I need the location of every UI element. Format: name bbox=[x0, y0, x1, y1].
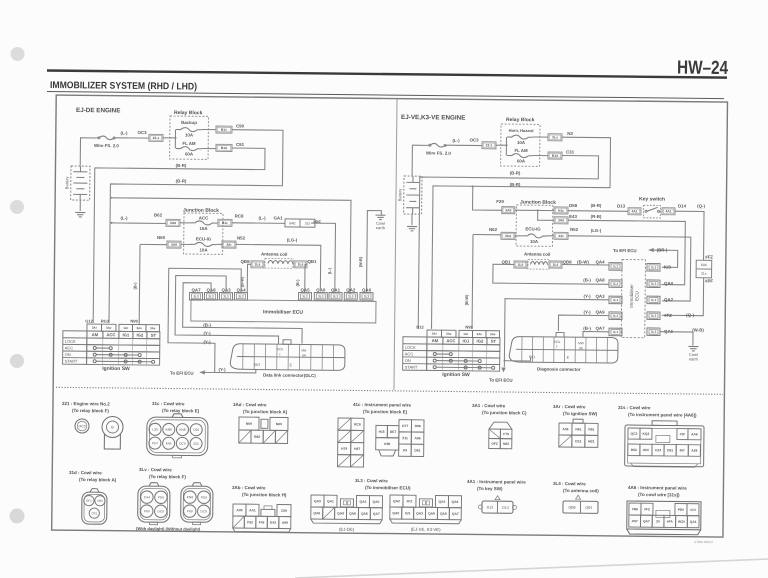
ECU pin QA7 connector 3L3 bbox=[189, 293, 202, 301]
svg-text:QA1: QA1 bbox=[331, 287, 341, 292]
junction block dashed box (right) bbox=[516, 205, 553, 246]
svg-text:QB1: QB1 bbox=[585, 506, 592, 510]
fuse FL AM 60A (right) bbox=[507, 154, 533, 158]
wire fuse to 3Ar bbox=[217, 243, 222, 245]
svg-text:22-1: 22-1 bbox=[486, 143, 493, 147]
wire N62 feed bbox=[473, 233, 501, 235]
svg-text:O31: O31 bbox=[91, 511, 97, 515]
svg-text:LOCK: LOCK bbox=[65, 339, 76, 344]
svg-text:(W-B): (W-B) bbox=[358, 256, 363, 267]
svg-text:4A6 : Instrument panel wire: 4A6 : Instrument panel wire bbox=[628, 485, 687, 491]
svg-text:(To immobiliser ECU): (To immobiliser ECU) bbox=[365, 485, 411, 490]
legend 221 connector B (keyhole) bbox=[102, 416, 123, 449]
svg-text:IG1: IG1 bbox=[122, 332, 129, 337]
svg-text:A05: A05 bbox=[236, 508, 242, 512]
svg-text:10A: 10A bbox=[517, 140, 526, 145]
svg-text:WZ#: WZ# bbox=[678, 520, 685, 524]
svg-text:QA1: QA1 bbox=[327, 499, 334, 503]
svg-text:OC3: OC3 bbox=[78, 424, 85, 428]
svg-text:QA0: QA0 bbox=[316, 287, 326, 292]
legend 3L3 connector EJ-DE bbox=[311, 495, 383, 532]
svg-text:#PF: #PF bbox=[705, 278, 713, 283]
svg-text:#DV: #DV bbox=[643, 448, 650, 452]
connector 22-1 (right) bbox=[482, 142, 496, 149]
svg-text:(With daylight) (Without dayli: (With daylight) (Without daylight) bbox=[136, 526, 201, 532]
wire Q- to #FZ pin bbox=[662, 277, 704, 315]
wire SIO branch right bbox=[504, 357, 531, 361]
svg-text:IG2: IG2 bbox=[477, 339, 484, 344]
svg-text:60A: 60A bbox=[517, 158, 526, 163]
svg-text:15A: 15A bbox=[199, 226, 208, 231]
svg-text:N99: N99 bbox=[130, 318, 138, 323]
svg-text:3Lv : Cowl wire: 3Lv : Cowl wire bbox=[139, 467, 172, 472]
wire B- row5 bbox=[583, 332, 609, 337]
ECU pin QA3 connector 3L3 bbox=[219, 293, 232, 301]
diagnosis connector bbox=[509, 332, 618, 363]
svg-text:#FA: #FA bbox=[667, 520, 674, 524]
wire N3 to ignition SW (B-R) right bbox=[432, 136, 611, 331]
svg-text:RG1: RG1 bbox=[101, 318, 110, 323]
svg-text:QA9: QA9 bbox=[337, 511, 344, 515]
svg-text:(B-R): (B-R) bbox=[510, 170, 521, 175]
ECU pin QA6 connector 3L3 bbox=[360, 293, 373, 301]
svg-text:(To antenna coil): (To antenna coil) bbox=[563, 488, 599, 493]
legend 4A6 connector bbox=[627, 501, 701, 535]
wire antenna return B- bbox=[493, 264, 609, 284]
svg-text:DC9: DC9 bbox=[158, 509, 165, 513]
svg-text:QA5: QA5 bbox=[361, 512, 368, 516]
svg-text:3L3: 3L3 bbox=[223, 295, 229, 299]
svg-text:Key switch: Key switch bbox=[639, 196, 665, 202]
header thick rule bbox=[47, 71, 727, 78]
svg-text:3L3: 3L3 bbox=[318, 294, 324, 298]
svg-text:QA3: QA3 bbox=[416, 511, 423, 515]
svg-text:C90: C90 bbox=[193, 428, 199, 432]
svg-text:QA4: QA4 bbox=[439, 500, 446, 504]
connector B1d / C31 bbox=[548, 152, 562, 159]
wire R-B to QA0 bbox=[567, 220, 685, 285]
svg-text:Antenna coil: Antenna coil bbox=[261, 252, 287, 257]
svg-text:3Ai: 3Ai bbox=[92, 326, 97, 330]
svg-text:(To junction block A): (To junction block A) bbox=[243, 409, 288, 414]
svg-text:earth: earth bbox=[689, 356, 698, 361]
svg-text:A7BB-0303J: A7BB-0303J bbox=[694, 540, 713, 544]
svg-text:PD6: PD6 bbox=[201, 495, 207, 499]
binder hole dot 3 bbox=[10, 354, 24, 368]
svg-text:3Lv: 3Lv bbox=[552, 135, 558, 139]
ECU right-ckt right pin IU3 bbox=[647, 263, 660, 271]
svg-text:F69: F69 bbox=[144, 509, 150, 513]
svg-text:Wire FS. 2.0: Wire FS. 2.0 bbox=[94, 143, 119, 148]
svg-text:N60: N60 bbox=[157, 235, 166, 240]
connector 3Lv / N3 bbox=[548, 134, 562, 141]
fuse FL AM 60A bbox=[176, 147, 202, 151]
wire QA3 (Y-) loop bbox=[175, 275, 279, 344]
wire LG- to QA2 bbox=[567, 236, 690, 301]
svg-text:3A5: 3A5 bbox=[505, 208, 511, 212]
svg-text:OF1: OF1 bbox=[86, 499, 92, 503]
svg-text:D77: D77 bbox=[402, 424, 408, 428]
wire Q- down part1 bbox=[675, 211, 705, 260]
svg-text:(B-): (B-) bbox=[583, 277, 591, 282]
svg-text:31s : Cowl wire: 31s : Cowl wire bbox=[618, 405, 651, 410]
svg-text:QA4: QA4 bbox=[360, 500, 367, 504]
connector H1c bbox=[554, 207, 568, 214]
svg-text:3L4 : Cowl wire: 3L4 : Cowl wire bbox=[553, 481, 586, 486]
wire battery negative to ground bbox=[79, 200, 81, 211]
svg-text:EJ-DE ENGINE: EJ-DE ENGINE bbox=[76, 107, 121, 114]
svg-text:QA9: QA9 bbox=[428, 512, 435, 516]
svg-text:F52: F52 bbox=[247, 520, 253, 524]
svg-text:QC3: QC3 bbox=[631, 432, 638, 436]
svg-text:3L4: 3L4 bbox=[518, 263, 524, 267]
wire fusible link to 22-1 bbox=[116, 137, 149, 139]
battery (left) bbox=[64, 166, 90, 200]
ECU pin QA5 connector 3L3 bbox=[298, 293, 311, 301]
svg-text:3Ar : Cowl wire: 3Ar : Cowl wire bbox=[553, 404, 586, 409]
svg-text:6AE: 6AE bbox=[289, 221, 296, 225]
svg-text:3L3: 3L3 bbox=[333, 294, 339, 298]
svg-text:Data link connector(DLC): Data link connector(DLC) bbox=[263, 373, 316, 379]
svg-text:221 : Engine wire No.2: 221 : Engine wire No.2 bbox=[62, 401, 110, 407]
svg-text:QA0: QA0 bbox=[392, 511, 399, 515]
svg-text:#FZ: #FZ bbox=[407, 499, 413, 503]
svg-text:T: T bbox=[556, 345, 558, 349]
ECU right-ckt right pin QA0 bbox=[647, 280, 660, 288]
connector 3A9 right bbox=[554, 217, 568, 224]
svg-text:MW: MW bbox=[578, 341, 584, 345]
svg-text:D14: D14 bbox=[502, 506, 509, 510]
ECU pin QA4 connector 3L3 bbox=[234, 293, 247, 301]
connector 4A1 right of key switch bbox=[662, 208, 675, 215]
svg-text:#N6: #N6 bbox=[632, 507, 638, 511]
svg-text:3Av: 3Av bbox=[150, 326, 156, 330]
connector B1c / C90 bbox=[216, 126, 232, 133]
wire battery top lead bbox=[80, 137, 97, 139]
wire down to ignition right N99 bbox=[471, 234, 474, 328]
svg-text:(To cowl wire [31s]): (To cowl wire [31s]) bbox=[638, 492, 680, 497]
svg-text:(Q-): (Q-) bbox=[686, 312, 694, 317]
svg-text:(L-): (L-) bbox=[258, 215, 266, 220]
svg-text:(: ( bbox=[279, 352, 281, 356]
svg-text:(L-): (L-) bbox=[120, 215, 128, 220]
fuse Horn Hazard 10A bbox=[507, 135, 533, 139]
svg-text:(To relay block E): (To relay block E) bbox=[162, 408, 200, 413]
inline connector 6A6/31s vertical bbox=[696, 260, 712, 278]
svg-text:10A: 10A bbox=[530, 239, 539, 244]
svg-text:(Y-): (Y-) bbox=[583, 294, 591, 299]
svg-text:OC3: OC3 bbox=[137, 130, 147, 135]
wire battery negative to ground (right) bbox=[411, 214, 413, 225]
svg-text:#FZ: #FZ bbox=[664, 313, 672, 318]
wire W-B vertical bbox=[367, 211, 382, 293]
svg-text:ST: ST bbox=[151, 333, 157, 338]
wire LG- to pin bbox=[236, 244, 321, 289]
svg-text:QA7: QA7 bbox=[643, 519, 650, 523]
svg-text:N52: N52 bbox=[570, 227, 579, 232]
svg-text:#PF: #PF bbox=[313, 219, 321, 224]
svg-text:D58: D58 bbox=[569, 203, 578, 208]
svg-text:E45: E45 bbox=[166, 441, 172, 445]
svg-text:3L3: 3L3 bbox=[651, 314, 657, 318]
svg-text:(Q-): (Q-) bbox=[697, 203, 705, 208]
wire junction row E43 bbox=[538, 210, 554, 220]
wire antenna to pin QA4 right bbox=[562, 263, 609, 265]
svg-text:3L4: 3L4 bbox=[255, 263, 261, 267]
svg-text:3L3: 3L3 bbox=[613, 265, 619, 269]
wire to EFI arrow bbox=[200, 370, 216, 375]
svg-text:#FZ: #FZ bbox=[705, 254, 713, 259]
svg-text:10A: 10A bbox=[199, 247, 208, 252]
svg-text:D96: D96 bbox=[415, 424, 421, 428]
wire to key switch bbox=[568, 210, 628, 213]
svg-text:(B-R): (B-R) bbox=[176, 163, 187, 168]
svg-text:D12: D12 bbox=[575, 439, 581, 443]
svg-text:ACC: ACC bbox=[446, 338, 455, 343]
svg-text:(To ignition SW): (To ignition SW) bbox=[563, 411, 598, 416]
ECU right-ckt left pin QA8 bbox=[609, 280, 622, 288]
svg-text:N61: N61 bbox=[575, 427, 581, 431]
svg-text:G12: G12 bbox=[85, 318, 93, 323]
svg-text:KQ2: KQ2 bbox=[643, 432, 650, 436]
svg-text:(B-R): (B-R) bbox=[591, 203, 602, 208]
legend 31c connector (8-pin oval) bbox=[147, 414, 208, 459]
svg-text:3L3: 3L3 bbox=[208, 294, 214, 298]
svg-text:H1c: H1c bbox=[558, 209, 564, 213]
svg-text:(LG-): (LG-) bbox=[287, 237, 298, 242]
svg-text:IG1: IG1 bbox=[463, 338, 470, 343]
svg-text:60A: 60A bbox=[185, 151, 194, 156]
svg-text:Z#: Z# bbox=[656, 520, 660, 524]
binder hole dot 4 bbox=[10, 509, 25, 524]
svg-text:(To key SW): (To key SW) bbox=[477, 486, 503, 491]
svg-text:1Ar: 1Ar bbox=[463, 332, 469, 336]
legend 31s connector (large) bbox=[625, 421, 704, 468]
svg-text:KN8: KN8 bbox=[187, 495, 193, 499]
svg-text:(B-): (B-) bbox=[132, 282, 137, 290]
ECU right-ckt left pin QA9 bbox=[609, 312, 622, 320]
connector 3L4 right (right ckt) bbox=[549, 261, 562, 268]
wire C31 to ignition SW (B-R) right bbox=[418, 154, 598, 331]
svg-text:(L-): (L-) bbox=[327, 267, 332, 274]
svg-text:D13: D13 bbox=[617, 203, 626, 208]
connector 3L4 left bbox=[251, 261, 264, 268]
svg-text:3L3: 3L3 bbox=[613, 282, 619, 286]
wire into relay block bbox=[170, 137, 175, 139]
svg-text:3Ab : Cowl wire: 3Ab : Cowl wire bbox=[232, 485, 266, 490]
wire 3A9 to fuse bbox=[181, 243, 190, 245]
svg-text:DC9: DC9 bbox=[201, 509, 208, 513]
svg-text:A28: A28 bbox=[691, 449, 697, 453]
legend 3Lv connector (without daylight) bbox=[181, 483, 213, 525]
wire C91 to ignition SW (B-R) bbox=[93, 147, 265, 325]
svg-text:KM6: KM6 bbox=[165, 428, 172, 432]
svg-text:31d : Cowl wire: 31d : Cowl wire bbox=[69, 470, 102, 475]
svg-text:(Y-): (Y-) bbox=[203, 331, 211, 336]
svg-text:ECU-IG: ECU-IG bbox=[196, 236, 212, 241]
svg-text:3L3: 3L3 bbox=[364, 294, 370, 298]
antenna coil component bbox=[265, 259, 293, 269]
svg-text:31s: 31s bbox=[305, 222, 311, 226]
svg-text:3L3: 3L3 bbox=[193, 294, 199, 298]
svg-text:LOCK: LOCK bbox=[405, 345, 416, 350]
wire fuse to B1c bbox=[202, 129, 216, 131]
svg-text:N62: N62 bbox=[489, 227, 498, 232]
ECU right-ckt right pin #FZ bbox=[647, 312, 660, 320]
inline connector 6AE/31s bbox=[285, 219, 315, 227]
svg-text:41c : Instrument panel wire: 41c : Instrument panel wire bbox=[353, 402, 412, 408]
svg-text:3A8: 3A8 bbox=[170, 221, 176, 225]
svg-text:MB: MB bbox=[302, 348, 307, 352]
svg-text:QB1: QB1 bbox=[502, 259, 512, 264]
svg-text:A99: A99 bbox=[282, 521, 288, 525]
svg-text:3Ai: 3Ai bbox=[432, 332, 437, 336]
svg-text:QA5: QA5 bbox=[440, 512, 447, 516]
connector B1d / C91 bbox=[216, 144, 232, 151]
svg-text:QA7: QA7 bbox=[373, 512, 380, 516]
ECU pin QA2 connector 3L3 bbox=[344, 293, 357, 301]
svg-text:3L3: 3L3 bbox=[613, 298, 619, 302]
ECU pin QA1 connector 3L3 bbox=[329, 293, 342, 301]
svg-text:Horn, Hazard: Horn, Hazard bbox=[509, 128, 535, 133]
svg-text:D51: D51 bbox=[667, 448, 673, 452]
svg-text:Ignition SW: Ignition SW bbox=[102, 366, 130, 372]
svg-text:E43: E43 bbox=[569, 214, 577, 219]
svg-text:31s: 31s bbox=[701, 272, 707, 276]
fuse ACC 15A bbox=[190, 221, 217, 225]
svg-text:C90: C90 bbox=[236, 123, 245, 128]
svg-text:QA5: QA5 bbox=[300, 287, 310, 292]
svg-text:3A9: 3A9 bbox=[558, 218, 564, 222]
ignition switch (left) bbox=[63, 324, 160, 365]
svg-text:(B-): (B-) bbox=[295, 279, 300, 287]
wire relay internal junction bbox=[174, 130, 176, 149]
svg-text:earth: earth bbox=[376, 225, 385, 230]
svg-text:3L3 : Cowl wire: 3L3 : Cowl wire bbox=[355, 478, 388, 483]
svg-text:H15: H15 bbox=[379, 430, 385, 434]
svg-text:(Y-): (Y-) bbox=[583, 310, 591, 315]
svg-text:(To junction block E): (To junction block E) bbox=[363, 409, 408, 414]
svg-text:To EFI ECU: To EFI ECU bbox=[489, 378, 513, 383]
circuit divider line bbox=[394, 99, 397, 390]
svg-text:CA4: CA4 bbox=[144, 495, 150, 499]
ECU pin QA0 connector 3L3 bbox=[314, 293, 327, 301]
wire QA8 (B-) loop bbox=[182, 283, 302, 344]
ECU right-ckt right pin QA6 bbox=[647, 328, 660, 336]
svg-text:QA7: QA7 bbox=[452, 512, 459, 516]
svg-text:AM: AM bbox=[92, 332, 99, 337]
svg-text:3L3: 3L3 bbox=[651, 282, 657, 286]
ignition switch (right) bbox=[403, 330, 500, 371]
svg-text:QB8: QB8 bbox=[568, 506, 575, 510]
svg-text:F79: F79 bbox=[503, 432, 509, 436]
svg-text:START: START bbox=[405, 365, 418, 370]
svg-text:4A1 : Instrument panel wire: 4A1 : Instrument panel wire bbox=[467, 479, 526, 485]
svg-text:4A1: 4A1 bbox=[665, 209, 671, 213]
svg-text:B: B bbox=[111, 425, 114, 429]
svg-text:QA7: QA7 bbox=[596, 326, 606, 331]
wire W-B to cowl earth bbox=[660, 332, 693, 346]
svg-text:3L3: 3L3 bbox=[613, 330, 619, 334]
svg-text:QA9: QA9 bbox=[596, 310, 606, 315]
svg-text:3Ar: 3Ar bbox=[558, 234, 564, 238]
svg-text:3Ar: 3Ar bbox=[226, 243, 232, 247]
cowl earth (left) bbox=[375, 215, 385, 230]
wire N60 feed bbox=[140, 243, 167, 245]
svg-text:QB1: QB1 bbox=[307, 259, 317, 264]
wire relay internal junction (right) bbox=[505, 137, 507, 155]
svg-text:B1c: B1c bbox=[222, 221, 228, 225]
svg-text:ACC: ACC bbox=[106, 332, 115, 337]
svg-text:B1d: B1d bbox=[552, 154, 558, 158]
svg-text:START: START bbox=[65, 359, 78, 364]
svg-text:22-1: 22-1 bbox=[153, 136, 160, 140]
svg-text:4A1: 4A1 bbox=[631, 209, 637, 213]
connector 3A9 (ECU-IG feed) bbox=[167, 241, 181, 248]
svg-text:3Av: 3Av bbox=[490, 332, 496, 336]
svg-text:HW–24: HW–24 bbox=[677, 57, 729, 79]
svg-text:(EJ-VE, K3-VE): (EJ-VE, K3-VE) bbox=[411, 527, 441, 532]
svg-text:3L3: 3L3 bbox=[613, 314, 619, 318]
wire ACC fuse out bbox=[216, 222, 219, 224]
arrowhead To EFI ECU down (right) bbox=[501, 367, 505, 372]
antenna coil component (right) bbox=[528, 260, 549, 270]
svg-text:QA3: QA3 bbox=[314, 499, 321, 503]
svg-text:ECU: ECU bbox=[634, 291, 639, 301]
svg-text:M21: M21 bbox=[588, 440, 595, 444]
svg-text:#N7: #N7 bbox=[632, 519, 638, 523]
svg-text:N60: N60 bbox=[276, 422, 282, 426]
svg-text:(B-R): (B-R) bbox=[510, 182, 521, 187]
wire fuse to B1d (right) bbox=[533, 154, 548, 156]
svg-text:(Y-): (Y-) bbox=[203, 339, 211, 344]
svg-text:E: E bbox=[290, 363, 293, 367]
wire fusible link to 22-1 (right) bbox=[447, 144, 482, 146]
svg-text:1Ar: 1Ar bbox=[123, 326, 129, 330]
svg-text:ON: ON bbox=[65, 352, 71, 357]
wire QA4 (Y-) loop bbox=[168, 268, 242, 373]
svg-text:Backup: Backup bbox=[181, 120, 197, 125]
wire to QA2 pin bbox=[110, 198, 351, 295]
svg-text:QA8: QA8 bbox=[349, 512, 356, 516]
svg-text:Immobiliser ECU: Immobiliser ECU bbox=[263, 309, 303, 315]
connector 3Ar / N52 right bbox=[554, 232, 568, 239]
svg-text:N69: N69 bbox=[246, 422, 252, 426]
svg-text:K9: K9 bbox=[403, 448, 407, 452]
svg-text:F43: F43 bbox=[259, 520, 265, 524]
svg-text:(To relay block F): (To relay block F) bbox=[149, 474, 186, 479]
svg-text:EJ-VE,K3-VE ENGINE: EJ-VE,K3-VE ENGINE bbox=[401, 114, 465, 122]
wire 22-1 to relay block bbox=[163, 137, 170, 139]
svg-text:SIO: SIO bbox=[254, 363, 261, 367]
wire battery positive vertical (right) bbox=[411, 145, 413, 176]
svg-text:QA3: QA3 bbox=[596, 294, 606, 299]
wire Y- row4 to ECU-T bbox=[558, 315, 609, 331]
svg-text:ACC: ACC bbox=[65, 345, 74, 350]
svg-text:QA8: QA8 bbox=[596, 277, 606, 282]
connector 3Ar / N52 bbox=[222, 241, 236, 248]
cowl earth (right) bbox=[688, 346, 698, 361]
svg-text:EC5: EC5 bbox=[277, 347, 283, 351]
svg-text:QA2: QA2 bbox=[664, 297, 674, 302]
wire ACC to 6AE/31s bbox=[232, 222, 285, 225]
svg-text:6A6: 6A6 bbox=[701, 263, 707, 267]
ECU right-ckt left pin QA3 bbox=[609, 296, 622, 304]
key switch contact bbox=[645, 207, 660, 212]
wire down to ignition SW (N99) bbox=[138, 244, 141, 324]
svg-text:(B-W): (B-W) bbox=[577, 259, 589, 264]
svg-text:AA1: AA1 bbox=[249, 508, 256, 512]
